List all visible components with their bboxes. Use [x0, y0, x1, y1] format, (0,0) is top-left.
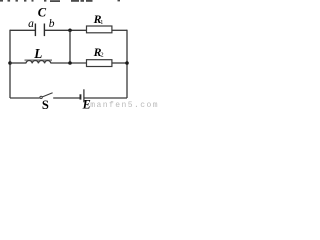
capacitor C left plate: [35, 24, 36, 37]
wire: bottom horizontal from battery to right rail: [85, 97, 128, 99]
svg-text:manfen5.com: manfen5.com: [90, 101, 159, 110]
inductor L coil humps: [26, 61, 51, 64]
wire: left vertical rail: [9, 30, 11, 98]
inductor L core bar: [25, 59, 53, 61]
battery E long thin plate: [83, 89, 84, 102]
node: junction dot on right rail at R2 wire: [125, 61, 129, 65]
cropped text row above figure: [0, 0, 120, 2]
svg-text:C: C: [38, 6, 47, 20]
svg-text:b: b: [49, 18, 55, 30]
capacitor C right plate: [44, 24, 45, 37]
svg-text:a: a: [28, 18, 34, 30]
wire: middle horizontal from left rail to inductor: [10, 62, 26, 64]
switch S pivot circle: [40, 96, 42, 98]
battery E short thick plate: [80, 94, 82, 99]
svg-text:S: S: [42, 98, 49, 110]
node: junction dot middle (middle vertical meets L/R2 wire): [68, 61, 72, 65]
wire: top horizontal from capacitor to R1: [45, 29, 87, 31]
wire: middle vertical from top junction down to L/R2 wire: [69, 30, 71, 63]
switch S lever: [42, 93, 52, 97]
svg-text:1: 1: [100, 19, 103, 26]
node: junction dot top (capacitor branch meets middle vertical): [68, 29, 72, 33]
resistor R2: [87, 60, 112, 67]
wire: from R2 right side to right rail: [112, 62, 127, 64]
wire: right vertical rail: [126, 30, 128, 98]
node: junction dot on left rail at middle wire: [8, 61, 12, 65]
wire: bottom horizontal from switch to battery: [53, 97, 80, 99]
wire: top-left horizontal from left corner to capacitor plate a: [10, 29, 35, 31]
wire: middle horizontal from inductor to R2: [51, 62, 87, 64]
wire: bottom horizontal from left rail to switch: [10, 97, 40, 99]
svg-text:L: L: [33, 46, 42, 61]
wire: from R1 right side to right rail: [112, 29, 127, 31]
resistor R1: [87, 26, 112, 33]
svg-text:2: 2: [100, 52, 103, 59]
